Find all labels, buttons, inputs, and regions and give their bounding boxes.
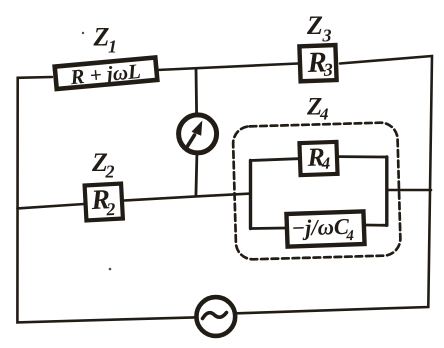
svg-text:4: 4 bbox=[320, 154, 330, 173]
svg-text:2: 2 bbox=[105, 162, 115, 182]
svg-text:4: 4 bbox=[319, 105, 329, 124]
svg-text:Z: Z bbox=[93, 23, 110, 52]
svg-text:3: 3 bbox=[322, 26, 332, 46]
svg-text:2: 2 bbox=[105, 199, 116, 219]
svg-text:−j/ωC: −j/ωC bbox=[291, 214, 350, 241]
svg-text:3: 3 bbox=[322, 59, 333, 79]
svg-text:1: 1 bbox=[108, 37, 117, 57]
svg-text:4: 4 bbox=[345, 228, 355, 244]
svg-text:Z: Z bbox=[306, 11, 323, 40]
